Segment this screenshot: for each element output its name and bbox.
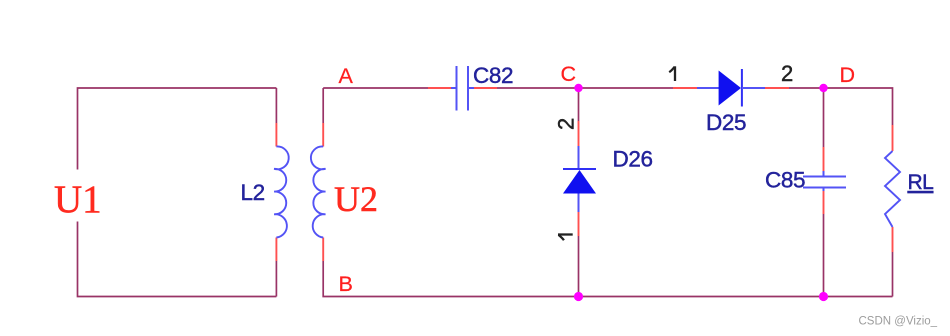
svg-text:2: 2 [554,118,579,130]
svg-text:2: 2 [781,61,793,86]
svg-text:RL: RL [908,171,934,194]
svg-text:D26: D26 [613,147,653,172]
svg-text:U1: U1 [54,178,102,221]
svg-text:U2: U2 [334,179,378,219]
svg-text:C: C [561,62,577,86]
svg-text:B: B [339,272,353,296]
svg-text:L2: L2 [241,180,265,205]
svg-text:A: A [339,64,354,88]
svg-text:D: D [840,63,856,87]
svg-text:D25: D25 [706,110,746,135]
svg-text:C82: C82 [473,63,513,88]
svg-text:C85: C85 [765,168,805,193]
svg-text:CSDN @Vizio_: CSDN @Vizio_ [859,315,938,327]
